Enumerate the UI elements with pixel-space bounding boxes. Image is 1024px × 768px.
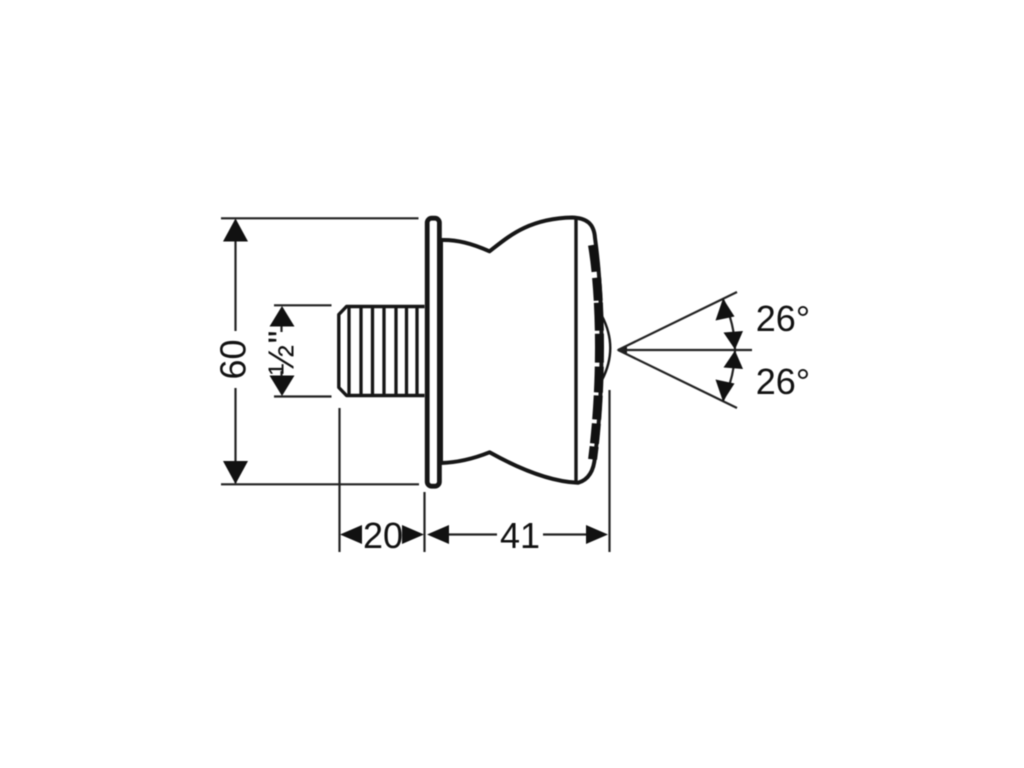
arc arrow lower-bottom (716, 380, 735, 402)
dimension 20/41: middle extension line (423, 492, 425, 552)
dimension 41: right extension line (608, 390, 610, 552)
dimension 20: right arrow (402, 525, 424, 544)
spray nozzle bumps on face edge (593, 245, 600, 460)
shower body (neck and head silhouette) (441, 218, 602, 483)
wall plate (427, 218, 439, 486)
dimension 60: top extension line (221, 217, 419, 219)
dimension 60: down arrow (223, 461, 248, 484)
dimension 41: dimension line segments (449, 533, 497, 535)
spray cone vertex (617, 346, 628, 354)
dimension 1/2": label (280, 327, 282, 333)
face inner line (574, 219, 577, 484)
dimension 60: up arrow (223, 219, 248, 242)
spray cone: middle ray (618, 349, 752, 351)
svg-text:26°: 26° (756, 361, 810, 402)
svg-text:26°: 26° (756, 298, 810, 339)
angle arc lower (723, 350, 735, 401)
arc arrow upper-bottom (bowtie top) (724, 331, 744, 350)
spray cone: upper ray (618, 292, 737, 350)
threaded connector (339, 307, 425, 396)
dimension 41: left arrow (427, 525, 449, 544)
thread lines (349, 307, 417, 395)
svg-text:½": ½" (261, 329, 302, 375)
dimension 1/2": down arrow (270, 376, 295, 397)
face bulge arc (602, 316, 610, 380)
dimension 41: right arrow (586, 525, 608, 544)
svg-text:41: 41 (500, 515, 540, 556)
dimension 20: left extension line (338, 408, 340, 552)
dimension 20: left arrow (340, 525, 362, 544)
dimension 1/2": bottom extension line (274, 395, 332, 397)
dimension 1/2": up arrow (270, 306, 295, 327)
svg-text:20: 20 (363, 515, 403, 556)
arc arrow lower-top (bowtie bottom) (724, 351, 744, 370)
dimension 60: bottom extension line (221, 483, 419, 485)
dimension 60: dimension line (234, 220, 236, 331)
svg-text:60: 60 (213, 339, 254, 379)
angle arc upper (723, 300, 735, 351)
arc arrow upper-top (716, 299, 735, 321)
dimension 1/2": top extension line (274, 304, 332, 306)
spray cone: lower ray (618, 350, 737, 408)
